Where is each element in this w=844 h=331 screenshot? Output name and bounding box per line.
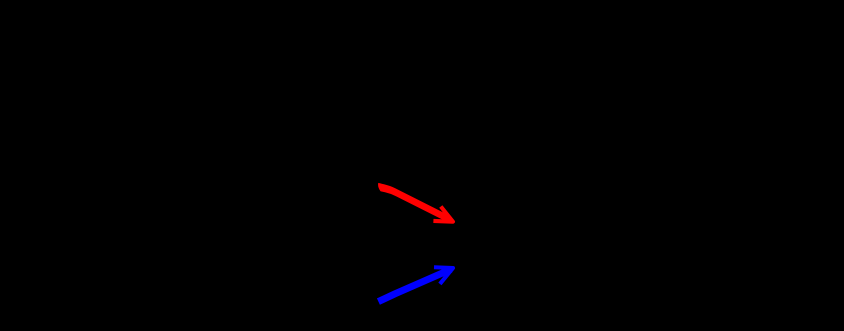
red arrow head barbs (433, 207, 453, 222)
blue annotation arrow (points to lower node) (378, 267, 453, 301)
blue arrow shaft (slight bend near tail) (378, 269, 451, 301)
blue arrow head barbs (434, 267, 453, 284)
red annotation arrow (points to upper node) (378, 183, 451, 223)
red arrow shaft (filled polygon, kink near tail, sheared tail cap) (378, 183, 451, 223)
